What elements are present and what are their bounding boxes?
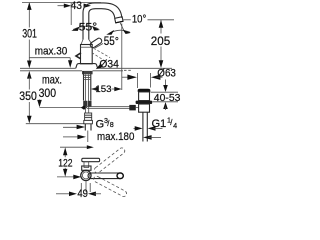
- svg-text:8: 8: [110, 120, 114, 129]
- svg-text:max.: max.: [42, 74, 62, 87]
- svg-text:43: 43: [71, 0, 82, 12]
- svg-text:max.180: max.180: [97, 131, 134, 143]
- svg-text:max.30: max.30: [35, 46, 68, 58]
- svg-text:350: 350: [19, 89, 37, 103]
- svg-text:10°: 10°: [132, 14, 146, 26]
- svg-text:4: 4: [173, 121, 177, 130]
- svg-text:Ø34: Ø34: [99, 59, 118, 71]
- svg-text:122: 122: [58, 157, 72, 169]
- svg-text:301: 301: [22, 27, 37, 41]
- svg-text:40-53: 40-53: [154, 93, 181, 104]
- svg-text:300: 300: [39, 86, 57, 100]
- svg-text:205: 205: [151, 34, 171, 48]
- svg-text:G: G: [96, 118, 105, 130]
- svg-text:55°: 55°: [79, 21, 98, 33]
- svg-text:55°: 55°: [104, 34, 119, 48]
- svg-text:49: 49: [77, 188, 88, 200]
- svg-text:153: 153: [95, 84, 111, 95]
